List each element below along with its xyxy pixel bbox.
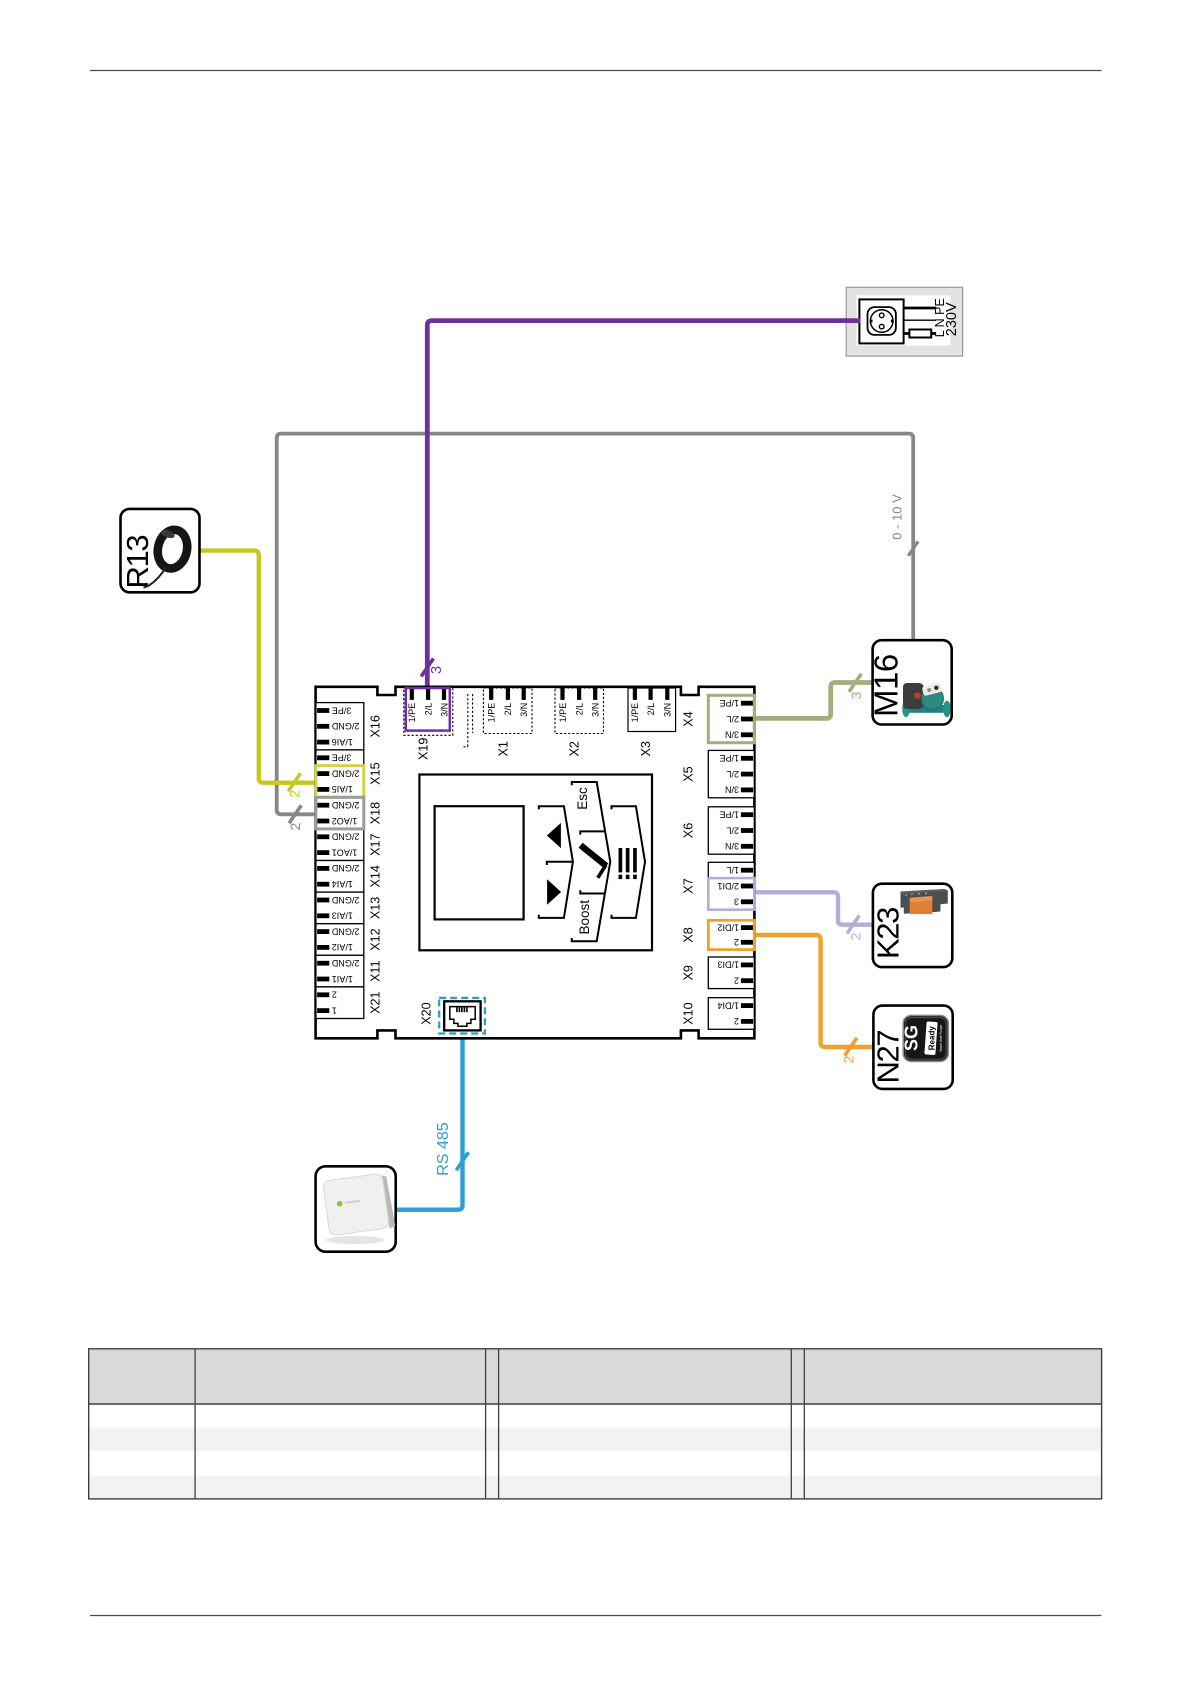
svg-text:1/PE: 1/PE — [630, 703, 640, 723]
svg-text:2/GND: 2/GND — [331, 958, 359, 968]
svg-text:3/PE: 3/PE — [332, 705, 352, 715]
svg-text:1/AI2: 1/AI2 — [332, 942, 353, 952]
svg-text:1/DI4: 1/DI4 — [717, 1000, 739, 1010]
svg-text:1/AO2: 1/AO2 — [332, 816, 358, 826]
svg-text:Esc: Esc — [575, 787, 590, 810]
svg-text:3/N: 3/N — [663, 703, 673, 717]
svg-text:3/N: 3/N — [439, 703, 449, 717]
svg-text:2: 2 — [734, 937, 739, 947]
svg-text:2/L: 2/L — [726, 825, 739, 835]
svg-text:X2: X2 — [568, 741, 582, 756]
svg-text:1/DI3: 1/DI3 — [717, 960, 739, 970]
svg-text:2/GND: 2/GND — [331, 800, 359, 810]
svg-text:2/GND: 2/GND — [331, 768, 359, 778]
svg-text:1/PE: 1/PE — [719, 810, 739, 820]
svg-text:Smart Heat Pumps: Smart Heat Pumps — [939, 1024, 943, 1051]
svg-text:X4: X4 — [682, 711, 696, 726]
svg-text:1/AI5: 1/AI5 — [332, 784, 353, 794]
svg-text:3/N: 3/N — [725, 785, 739, 795]
svg-text:3/PE: 3/PE — [332, 753, 352, 763]
svg-text:3: 3 — [428, 666, 445, 674]
svg-text:1/AI6: 1/AI6 — [332, 737, 353, 747]
svg-text:3/N: 3/N — [519, 703, 529, 717]
svg-text:SG: SG — [902, 1025, 922, 1051]
svg-text:2/GND: 2/GND — [331, 895, 359, 905]
svg-text:X17: X17 — [369, 833, 383, 855]
svg-text:1/PE: 1/PE — [407, 703, 417, 723]
svg-text:2: 2 — [734, 1016, 739, 1026]
svg-text:Boost: Boost — [577, 900, 592, 935]
svg-text:X3: X3 — [639, 741, 653, 756]
svg-text:1/PE: 1/PE — [719, 698, 739, 708]
svg-text:R13: R13 — [120, 536, 155, 589]
svg-text:1/PE: 1/PE — [558, 703, 568, 723]
svg-text:X10: X10 — [682, 1002, 696, 1024]
svg-text:2: 2 — [287, 822, 303, 830]
svg-text:2/GND: 2/GND — [331, 926, 359, 936]
svg-text:1/AI3: 1/AI3 — [332, 911, 353, 921]
svg-text:X6: X6 — [682, 823, 696, 838]
svg-text:X8: X8 — [682, 927, 696, 942]
svg-text:X7: X7 — [682, 878, 696, 893]
svg-text:X16: X16 — [369, 715, 383, 737]
svg-text:2/L: 2/L — [646, 703, 656, 716]
svg-text:2/L: 2/L — [423, 703, 433, 716]
svg-text:3/N: 3/N — [725, 730, 739, 740]
svg-text:2/GND: 2/GND — [331, 832, 359, 842]
svg-text:2/L: 2/L — [726, 714, 739, 724]
svg-text:X12: X12 — [369, 928, 383, 950]
svg-text:1/DI2: 1/DI2 — [717, 922, 739, 932]
svg-text:0 - 10 V: 0 - 10 V — [890, 494, 905, 540]
svg-text:3: 3 — [848, 691, 864, 699]
svg-text:X1: X1 — [497, 741, 511, 756]
svg-text:2/L: 2/L — [503, 703, 513, 716]
svg-text:1/PE: 1/PE — [719, 753, 739, 763]
svg-text:X19: X19 — [417, 738, 431, 760]
svg-text:X21: X21 — [369, 991, 383, 1013]
svg-text:2/L: 2/L — [574, 703, 584, 716]
svg-text:X5: X5 — [682, 766, 696, 781]
svg-text:1/AI1: 1/AI1 — [332, 974, 353, 984]
svg-text:3/N: 3/N — [591, 703, 601, 717]
svg-text:2/L: 2/L — [726, 769, 739, 779]
svg-text:X13: X13 — [369, 897, 383, 919]
svg-text:1/PE: 1/PE — [487, 703, 497, 723]
svg-text:X11: X11 — [369, 960, 383, 981]
svg-text:X18: X18 — [369, 802, 383, 824]
svg-text:2/GND: 2/GND — [331, 721, 359, 731]
svg-text:3/N: 3/N — [725, 841, 739, 851]
svg-text:Ready: Ready — [927, 1026, 936, 1051]
svg-text:M16: M16 — [868, 654, 905, 717]
svg-text:1: 1 — [332, 1005, 337, 1015]
svg-text:230V: 230V — [944, 302, 960, 336]
svg-text:X14: X14 — [369, 865, 383, 887]
svg-text:2: 2 — [332, 990, 337, 1000]
svg-text:K23: K23 — [871, 908, 906, 959]
svg-text:3: 3 — [734, 897, 739, 907]
svg-text:X15: X15 — [369, 762, 383, 784]
svg-text:N27: N27 — [871, 1031, 906, 1084]
svg-text:1/L: 1/L — [726, 865, 739, 875]
svg-text:2/GND: 2/GND — [331, 863, 359, 873]
svg-text:2: 2 — [841, 1055, 857, 1063]
svg-text:RS 485: RS 485 — [435, 1122, 452, 1175]
svg-text:1/AO1: 1/AO1 — [332, 847, 358, 857]
svg-text:2: 2 — [287, 790, 303, 798]
svg-text:X20: X20 — [420, 1002, 434, 1024]
svg-text:2/DI1: 2/DI1 — [717, 881, 739, 891]
svg-text:2: 2 — [848, 932, 864, 940]
svg-text:2: 2 — [734, 976, 739, 986]
svg-text:X9: X9 — [682, 965, 696, 980]
svg-text:1/AI4: 1/AI4 — [332, 879, 353, 889]
